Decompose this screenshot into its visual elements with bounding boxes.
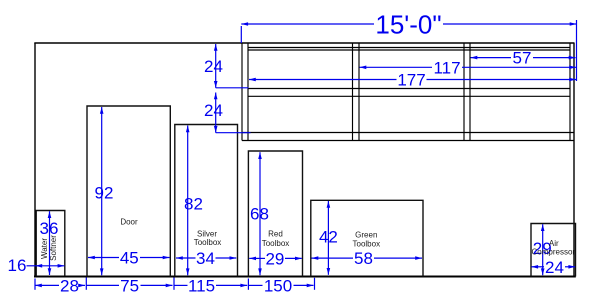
svg-text:82: 82 <box>184 194 203 213</box>
svg-text:24: 24 <box>545 258 564 277</box>
label Door <box>120 217 138 226</box>
svg-text:Toolbox: Toolbox <box>262 239 290 248</box>
door box <box>87 106 170 277</box>
shelf right inner panel <box>569 43 571 141</box>
shelf unit frame <box>242 43 574 141</box>
label Green Toolbox <box>353 230 381 248</box>
dimension 82 (silver toolbox height) <box>187 126 189 276</box>
dimension 45 (door width) <box>88 257 170 259</box>
dimension 36 (water softener height) <box>49 211 51 275</box>
svg-text:Red: Red <box>268 229 283 238</box>
dimension 15'-0" (overall width, top) <box>241 20 576 81</box>
label Water Softner (rotated) <box>40 235 58 261</box>
svg-text:Green: Green <box>355 230 377 239</box>
shelf left side panel <box>241 43 243 141</box>
dimension 150 (bottom chain) <box>248 284 313 286</box>
dimension 29 (red toolbox width) <box>249 257 302 259</box>
svg-text:Toolbox: Toolbox <box>353 240 381 249</box>
svg-text:Softner: Softner <box>49 235 58 261</box>
dimension 34 (silver toolbox width) <box>176 257 236 259</box>
svg-text:58: 58 <box>354 249 373 268</box>
svg-text:75: 75 <box>120 277 139 296</box>
dimension 57 (top right bay) <box>471 57 576 59</box>
dimension 115 (bottom chain) <box>174 284 247 286</box>
svg-text:24: 24 <box>204 57 223 76</box>
svg-text:150: 150 <box>264 277 292 296</box>
wall left edge <box>34 43 36 277</box>
dimension 24 (air compressor width) <box>531 266 575 268</box>
dimension 16 (water softener width) <box>27 265 65 267</box>
green toolbox box <box>311 200 423 276</box>
svg-text:117: 117 <box>433 58 460 77</box>
svg-text:45: 45 <box>120 249 139 268</box>
svg-text:Toolbox: Toolbox <box>194 238 222 247</box>
svg-text:92: 92 <box>95 184 114 203</box>
wall right edge <box>573 43 575 277</box>
shelf bottom board <box>242 132 574 134</box>
dimension 68 (red toolbox height) <box>259 152 261 275</box>
dimension 42 (green toolbox height) <box>327 201 329 275</box>
svg-text:16: 16 <box>8 256 27 275</box>
shelf divider 2 <box>463 43 465 141</box>
wall top edge <box>34 42 574 44</box>
label Air Compressor <box>532 239 576 257</box>
svg-text:Door: Door <box>120 217 138 226</box>
svg-text:42: 42 <box>319 228 338 247</box>
svg-text:57: 57 <box>513 49 532 68</box>
dimension 24 lower shelf row <box>216 93 251 133</box>
svg-text:29: 29 <box>265 250 284 269</box>
dimension 92 (door height) <box>101 107 103 275</box>
svg-text:68: 68 <box>250 204 269 223</box>
svg-text:28: 28 <box>60 277 79 296</box>
dimension 58 (green toolbox width) <box>312 257 423 259</box>
bottom dimension chain extension ticks <box>35 278 315 290</box>
label Silver Toolbox <box>194 230 222 248</box>
svg-text:Compressor: Compressor <box>532 248 576 257</box>
dimension 29 (air compressor height) <box>542 224 544 275</box>
svg-text:15'-0": 15'-0" <box>375 10 441 40</box>
svg-text:34: 34 <box>196 249 215 268</box>
svg-text:24: 24 <box>204 101 223 120</box>
dimension 117 <box>360 66 577 68</box>
label Red Toolbox <box>262 229 290 248</box>
dimension 28 (bottom chain) <box>35 284 85 286</box>
svg-text:Air: Air <box>549 239 559 248</box>
svg-text:177: 177 <box>397 71 425 90</box>
svg-text:115: 115 <box>188 277 215 296</box>
red toolbox box <box>248 151 302 277</box>
dimension 177 <box>249 79 576 81</box>
dimension 75 (bottom chain) <box>86 284 173 286</box>
floor line <box>34 276 576 278</box>
svg-text:Water: Water <box>40 238 49 259</box>
dimension 24 upper shelf row <box>216 44 249 88</box>
silver toolbox box <box>175 125 238 277</box>
air compressor box <box>531 224 576 277</box>
shelf middle board <box>248 88 570 90</box>
shelf divider 1 <box>352 43 354 141</box>
shelf top board <box>248 47 570 49</box>
water softener box <box>36 211 65 277</box>
